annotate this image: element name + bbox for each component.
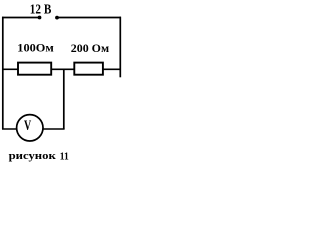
svg-text:V: V bbox=[24, 118, 32, 134]
svg-text:200 Ом: 200 Ом bbox=[71, 43, 109, 55]
svg-text:рисунок: рисунок bbox=[9, 151, 56, 162]
svg-text:12 В: 12 В bbox=[30, 3, 52, 18]
svg-text:11: 11 bbox=[60, 152, 69, 163]
svg-text:100Ом: 100Ом bbox=[17, 43, 54, 55]
